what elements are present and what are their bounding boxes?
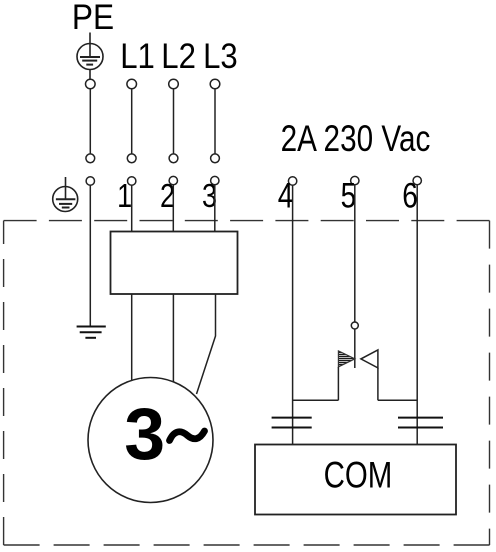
terminal L3 top [210, 79, 220, 89]
wire L2 upper [173, 89, 175, 154]
wire L3 upper [214, 89, 216, 154]
COM box [255, 445, 456, 515]
wire L1 upper [131, 89, 133, 154]
right flag pole [377, 368, 379, 400]
svg-text:L3: L3 [203, 37, 238, 76]
svg-text:L2: L2 [161, 37, 196, 76]
dashed enclosure left border [3, 221, 5, 545]
terminal L2 top [169, 79, 179, 89]
terminal 4 [288, 177, 296, 185]
svg-text:5: 5 [341, 176, 357, 216]
wire 5 lower [354, 329, 356, 368]
thermal contact right flag (open) [361, 350, 378, 368]
svg-text:3: 3 [124, 392, 165, 475]
terminal 6 [413, 176, 421, 184]
svg-text:2A 230 Vac: 2A 230 Vac [281, 119, 431, 160]
bus left segment [293, 399, 339, 401]
bus right segment [378, 399, 417, 401]
wire 5 upper [354, 185, 356, 322]
connector pin L1 [127, 154, 136, 163]
svg-text:L1: L1 [120, 37, 155, 76]
connector socket 1 [128, 177, 136, 185]
wire block to motor (middle) [172, 294, 174, 382]
svg-text:COM: COM [324, 454, 393, 496]
terminal 5 [351, 176, 359, 184]
connector socket PE [86, 177, 94, 185]
chassis earth symbol (circled earth at box edge) [53, 177, 78, 212]
connector bars on wire 6 [398, 418, 443, 428]
terminal PE top [86, 79, 96, 89]
wire block to motor (right, with bend) [197, 294, 216, 394]
wire PE upper [89, 89, 91, 154]
wire 2 into block [172, 185, 174, 232]
ground symbol [77, 327, 106, 338]
wire block to motor (left) [131, 294, 133, 381]
svg-text:1: 1 [117, 178, 132, 214]
dashed enclosure top border [4, 220, 490, 222]
connector socket 2 [169, 176, 177, 184]
svg-text:PE: PE [72, 0, 114, 37]
terminal L1 top [127, 79, 137, 89]
connector pin PE [86, 154, 95, 163]
motor M 3~ [88, 378, 213, 503]
thermal contact left flag (hatched) [338, 351, 355, 367]
wire 4 down to COM [292, 185, 294, 444]
capacitor/terminal block [111, 232, 238, 295]
svg-text:6: 6 [402, 176, 418, 216]
left flag pole [337, 367, 339, 400]
svg-text:4: 4 [278, 176, 294, 216]
wire 3 into block [214, 185, 216, 232]
connector pin L3 [211, 154, 220, 163]
motor label ~ (tilde) [170, 431, 205, 441]
switch pivot circle [351, 322, 358, 329]
connector pin L2 [169, 154, 178, 163]
connector socket 3 [211, 176, 219, 184]
dashed enclosure bottom border [4, 544, 490, 546]
wire 6 down to COM [416, 185, 418, 445]
wire 1 into block [131, 185, 133, 231]
dashed enclosure right border [489, 221, 491, 545]
connector bars on wire 4 [272, 418, 312, 428]
protective-earth symbol (circled earth, top PE) [77, 33, 103, 80]
wire PE to ground [89, 185, 91, 326]
